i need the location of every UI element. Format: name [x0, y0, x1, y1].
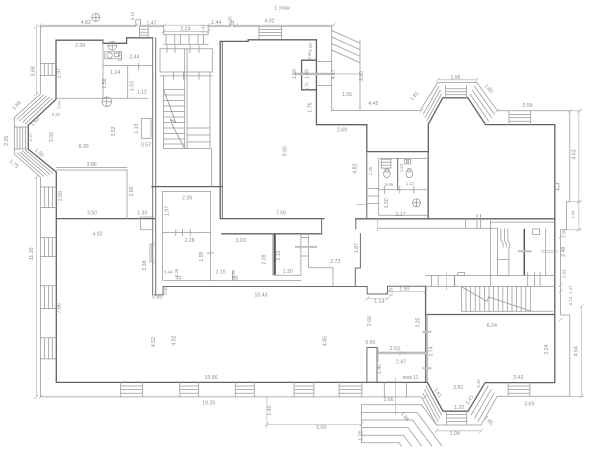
stair S2: box and landing: [426, 275, 555, 311]
left bay window hatch upper diagonal: [17, 95, 52, 124]
wall: room 6.24 north: [426, 314, 555, 316]
stair S1: landing lower line with ticks: [160, 72, 212, 79]
svg-text:2.72: 2.72: [330, 259, 340, 265]
porch box connector lines: [316, 62, 331, 86]
svg-text:1.50: 1.50: [384, 198, 390, 208]
dimension line 2.24: [162, 29, 211, 33]
dimension line top: [40, 24, 333, 26]
svg-text:0.41: 0.41: [56, 100, 61, 109]
svg-text:0.41: 0.41: [201, 24, 206, 33]
top bay window hatch right diagonal: [470, 86, 495, 121]
dimension line 1.98: [435, 429, 484, 433]
wall: corridor west (WC block): [366, 152, 368, 219]
WC tank 1: [381, 159, 391, 168]
wall: band connectors: [322, 219, 356, 234]
dimension line left 3.68: [34, 24, 38, 96]
stair S1: right flight treads: [187, 128, 210, 142]
door jambs in bottom wall near пом 11: [384, 382, 406, 396]
svg-text:4.92: 4.92: [264, 19, 274, 25]
wall: WC east: [427, 152, 429, 219]
svg-text:3.24: 3.24: [544, 344, 550, 354]
svg-text:2.97: 2.97: [57, 68, 63, 78]
svg-text:1.55: 1.55: [342, 92, 352, 98]
WC sink: [413, 199, 421, 207]
svg-text:7.50: 7.50: [276, 210, 286, 216]
partition: bathroom TL x=127.7: [127, 66, 129, 99]
svg-text:2.48: 2.48: [561, 247, 567, 257]
partition: double wall y=167.5/170: [56, 168, 127, 171]
dimension line left 11.30: [34, 175, 38, 399]
svg-text:1.98: 1.98: [450, 431, 460, 437]
porch window band mullions: [164, 35, 209, 53]
window B6 bottom wall right (3.43): [508, 382, 530, 396]
svg-text:6.36: 6.36: [79, 144, 89, 150]
svg-text:1.30: 1.30: [283, 269, 293, 275]
svg-text:4.92: 4.92: [171, 335, 177, 345]
wall: hall east / room 6.24 west: [425, 286, 427, 382]
window in strip west wall: [150, 244, 156, 262]
svg-text:0.10: 0.10: [130, 11, 135, 20]
WC toilet 1: [384, 168, 391, 177]
svg-text:2.66: 2.66: [367, 316, 373, 326]
svg-text:2.10: 2.10: [276, 250, 282, 260]
svg-text:1.90: 1.90: [399, 286, 409, 292]
svg-text:3.03: 3.03: [236, 238, 246, 244]
svg-text:0.80: 0.80: [307, 51, 312, 60]
window B2 bottom wall: [180, 382, 199, 396]
svg-text:1.33: 1.33: [118, 51, 124, 61]
stair S2: break line: [462, 287, 530, 311]
svg-text:1.20: 1.20: [359, 430, 365, 440]
dimension line 1.96: [436, 78, 479, 82]
dimension lines 2.53 / 2.47: [378, 352, 427, 355]
flue box: [533, 229, 540, 235]
stair S1: flight edges: [164, 72, 212, 187]
entrance steps fan bottom: [362, 405, 442, 446]
window B5 bottom wall: [339, 382, 362, 396]
stair S1: center dividers: [185, 49, 187, 149]
svg-text:4.85: 4.85: [323, 336, 329, 346]
svg-text:4.82: 4.82: [353, 163, 359, 173]
svg-text:4.45: 4.45: [368, 101, 378, 107]
svg-text:3.69: 3.69: [524, 401, 534, 407]
WC stalls: [379, 159, 429, 216]
svg-text:1.63: 1.63: [399, 163, 404, 172]
niche 1.13x0.57: [142, 118, 151, 138]
svg-text:7.86: 7.86: [57, 303, 63, 313]
toilet / basin top-left: [108, 42, 117, 51]
door swing lines right: [541, 250, 558, 252]
window B3 bottom wall: [235, 382, 254, 396]
svg-text:1.50: 1.50: [292, 69, 298, 79]
svg-text:2.05: 2.05: [4, 136, 10, 146]
svg-text:2.28: 2.28: [184, 238, 194, 244]
wall: mid band south: [222, 233, 322, 235]
svg-text:4.52: 4.52: [151, 337, 157, 347]
bottom bay window hatch SW diagonal: [423, 386, 441, 422]
WC toilet 2: [406, 168, 413, 177]
top bay window flat (1.96): [446, 86, 467, 98]
svg-text:4.64: 4.64: [574, 346, 580, 356]
svg-text:1.97: 1.97: [164, 206, 170, 216]
wall: stairwell south: [152, 186, 222, 188]
svg-text:3.60: 3.60: [359, 71, 365, 81]
svg-text:9.05: 9.05: [283, 146, 289, 156]
entrance ramp hatch: [332, 31, 360, 63]
wall: 1.87 column: [355, 234, 360, 287]
dimension lines 1.90 / 1.14: [365, 290, 427, 301]
svg-text:2.39: 2.39: [75, 43, 85, 49]
svg-text:0.08: 0.08: [227, 16, 232, 25]
svg-text:1.44: 1.44: [211, 20, 221, 26]
corridor steps (rungs): [367, 189, 379, 204]
WC tank 2: [404, 159, 410, 164]
svg-text:2.44: 2.44: [129, 55, 139, 61]
svg-text:2.53: 2.53: [390, 346, 400, 352]
window W2 left wall: [40, 238, 56, 257]
svg-text:0.75: 0.75: [304, 82, 309, 91]
svg-text:0.44: 0.44: [164, 269, 173, 274]
pier column near пом 11: [367, 348, 377, 383]
dimension ticks top: [38, 23, 335, 27]
wall: stairwell west double: [153, 38, 156, 295]
svg-text:0.96: 0.96: [385, 182, 394, 187]
svg-text:0.33: 0.33: [389, 287, 394, 296]
svg-text:3.25: 3.25: [415, 317, 421, 327]
room 3.03 walls: [273, 234, 333, 286]
svg-text:0.60: 0.60: [152, 295, 162, 301]
door ticks room 2.28: [176, 229, 233, 280]
svg-text:1.24: 1.24: [110, 70, 120, 76]
svg-text:6.24: 6.24: [487, 323, 497, 329]
svg-text:2.47: 2.47: [396, 359, 406, 365]
svg-text:5.00: 5.00: [316, 425, 326, 431]
dimension line right 4.63: [567, 109, 583, 232]
wall: dark partition x=274.7: [274, 234, 276, 275]
svg-text:2.17: 2.17: [395, 212, 405, 218]
svg-text:2.60: 2.60: [129, 186, 135, 196]
svg-text:0.22: 0.22: [52, 112, 61, 117]
wall: south band right section: [356, 218, 555, 220]
wall: corridor jog to stair2: [355, 286, 425, 294]
sink on partition: [102, 97, 112, 107]
svg-text:0.33: 0.33: [561, 269, 566, 278]
svg-text:1.44: 1.44: [571, 210, 576, 219]
svg-text:0.40: 0.40: [163, 286, 168, 295]
svg-text:0.14: 0.14: [568, 296, 573, 305]
svg-text:1.96: 1.96: [450, 75, 460, 81]
left bay window hatch lower diagonal: [17, 150, 53, 176]
window W1 left wall top: [40, 64, 56, 76]
svg-text:4.63: 4.63: [572, 149, 578, 159]
dimension line 4.17 gray: [294, 73, 334, 75]
porch box 1.40/0.75: [302, 60, 317, 90]
svg-text:3.50: 3.50: [87, 210, 97, 216]
svg-text:4.17: 4.17: [331, 69, 337, 79]
dimension ticks 3.59 / 4.45: [330, 108, 572, 112]
gray bar marks: [295, 247, 532, 368]
partition x=545.7: [545, 229, 547, 276]
window W5 below left bay: [41, 187, 57, 208]
svg-text:1.87: 1.87: [354, 243, 360, 253]
dimension vertical x=426.9 gray: [426, 315, 428, 382]
svg-text:1.95: 1.95: [199, 251, 205, 261]
wall: notch 0.60: [155, 287, 163, 295]
window W4 left wall: [40, 338, 56, 359]
window T2 top wall (4.92): [259, 26, 282, 38]
svg-text:1.22: 1.22: [454, 405, 464, 411]
svg-text:1.14: 1.14: [374, 299, 384, 305]
svg-text:1.35: 1.35: [137, 210, 147, 216]
svg-text:0.39: 0.39: [174, 268, 179, 277]
window W3 left wall: [40, 286, 56, 309]
svg-text:19.25: 19.25: [202, 400, 215, 406]
left bay window middle: [14, 127, 28, 149]
boiler top-left: [105, 52, 122, 59]
porch right edge wall: [359, 41, 361, 111]
window B4 bottom wall: [294, 382, 314, 396]
top bay window hatch left diagonal: [423, 86, 441, 120]
wall: mid band north (7.50 wall): [221, 218, 324, 220]
svg-text:2.66: 2.66: [383, 397, 393, 403]
svg-text:3.86: 3.86: [87, 162, 97, 168]
window B1 bottom wall: [121, 382, 143, 396]
stair S1: break line with arrow: [164, 90, 185, 148]
partition: x=127 room 3.50: [126, 170, 128, 219]
WC door posts: [385, 186, 414, 193]
stair S2: treads: [466, 286, 530, 311]
svg-text:1.56: 1.56: [102, 78, 108, 88]
dim extension through corridor: [356, 205, 378, 231]
svg-text:0.60: 0.60: [365, 340, 375, 346]
room 2.39/2.28 walls: [163, 192, 301, 281]
svg-text:1.16: 1.16: [216, 269, 226, 275]
svg-text:0.57: 0.57: [141, 142, 151, 148]
svg-text:1.12: 1.12: [137, 89, 147, 95]
svg-text:1.76: 1.76: [307, 102, 313, 112]
window T3 top wall right (x 509-531): [509, 111, 531, 125]
svg-text:3.38: 3.38: [142, 260, 148, 270]
window T1 top wall (1.47): [140, 27, 149, 38]
svg-text:2.69: 2.69: [337, 127, 347, 133]
svg-text:1.12: 1.12: [406, 181, 415, 186]
wall: strip south long: [163, 286, 355, 288]
svg-text:1.47: 1.47: [146, 20, 156, 26]
wall inner face: main perimeter thick: [28, 38, 555, 411]
stair S2: door bump: [458, 273, 465, 276]
stair S1: left flight treads: [164, 90, 185, 145]
svg-text:пом 11: пом 11: [402, 375, 418, 381]
svg-text:1.47: 1.47: [568, 285, 573, 294]
svg-text:1 этаж: 1 этаж: [274, 6, 290, 12]
svg-text:4.92: 4.92: [92, 231, 102, 237]
svg-text:0.38: 0.38: [231, 270, 236, 279]
partition: bathroom TL y=65.6: [103, 63, 153, 70]
svg-text:2.24: 2.24: [180, 26, 190, 32]
svg-text:1.13: 1.13: [134, 123, 140, 133]
svg-text:2.39: 2.39: [182, 195, 192, 201]
svg-text:3.52: 3.52: [111, 126, 117, 136]
WC stall partition: [397, 159, 399, 190]
svg-text:10.43: 10.43: [255, 292, 268, 298]
svg-text:1.35: 1.35: [368, 166, 373, 175]
svg-text:3.00: 3.00: [49, 132, 55, 142]
stair S1: landing box: [160, 49, 212, 72]
svg-text:0.40: 0.40: [476, 379, 481, 388]
wall: left building south (y=218.6): [56, 218, 154, 220]
dimension line right 4.64: [570, 304, 584, 398]
wall: right bldg west inner line: [221, 41, 223, 218]
small piers on strip south wall: [177, 277, 180, 279]
svg-text:1.27: 1.27: [28, 132, 34, 142]
partition: bathroom TL vertical x=103: [102, 40, 104, 98]
dark flue wall: [523, 229, 525, 276]
svg-text:0.36: 0.36: [562, 229, 567, 238]
bottom bay window flat (1.98): [447, 411, 467, 425]
svg-text:2.39: 2.39: [261, 254, 267, 264]
svg-text:11.30: 11.30: [29, 247, 35, 260]
duct flues: [498, 229, 510, 276]
dimension ticks right segments: [559, 235, 563, 322]
survey mark top: [92, 13, 100, 21]
partition: y=98.3: [56, 97, 148, 99]
svg-text:2.81: 2.81: [453, 385, 463, 391]
passage box 1.35: [141, 217, 153, 230]
wall piece y=274.4 with opening ticks: [426, 273, 555, 287]
svg-text:1.40: 1.40: [267, 405, 273, 415]
svg-text:4.82: 4.82: [81, 20, 91, 26]
svg-text:3.68: 3.68: [31, 66, 37, 76]
dimension line 5.00 bottom: [265, 397, 364, 428]
dimension ticks bottom wall: [38, 395, 427, 399]
right wall notch: [555, 183, 559, 189]
svg-text:1.45: 1.45: [377, 364, 383, 374]
svg-text:1.00: 1.00: [308, 43, 313, 52]
svg-text:3.74: 3.74: [429, 347, 435, 357]
svg-text:15.86: 15.86: [205, 375, 218, 381]
south band right inner lines: [378, 215, 498, 287]
svg-text:3.59: 3.59: [522, 103, 532, 109]
svg-text:2.50: 2.50: [58, 191, 64, 201]
svg-text:1.40: 1.40: [304, 69, 310, 79]
svg-text:1.53: 1.53: [129, 81, 135, 91]
svg-text:3.43: 3.43: [513, 375, 523, 381]
bottom bay window hatch SE diagonal: [471, 386, 494, 421]
